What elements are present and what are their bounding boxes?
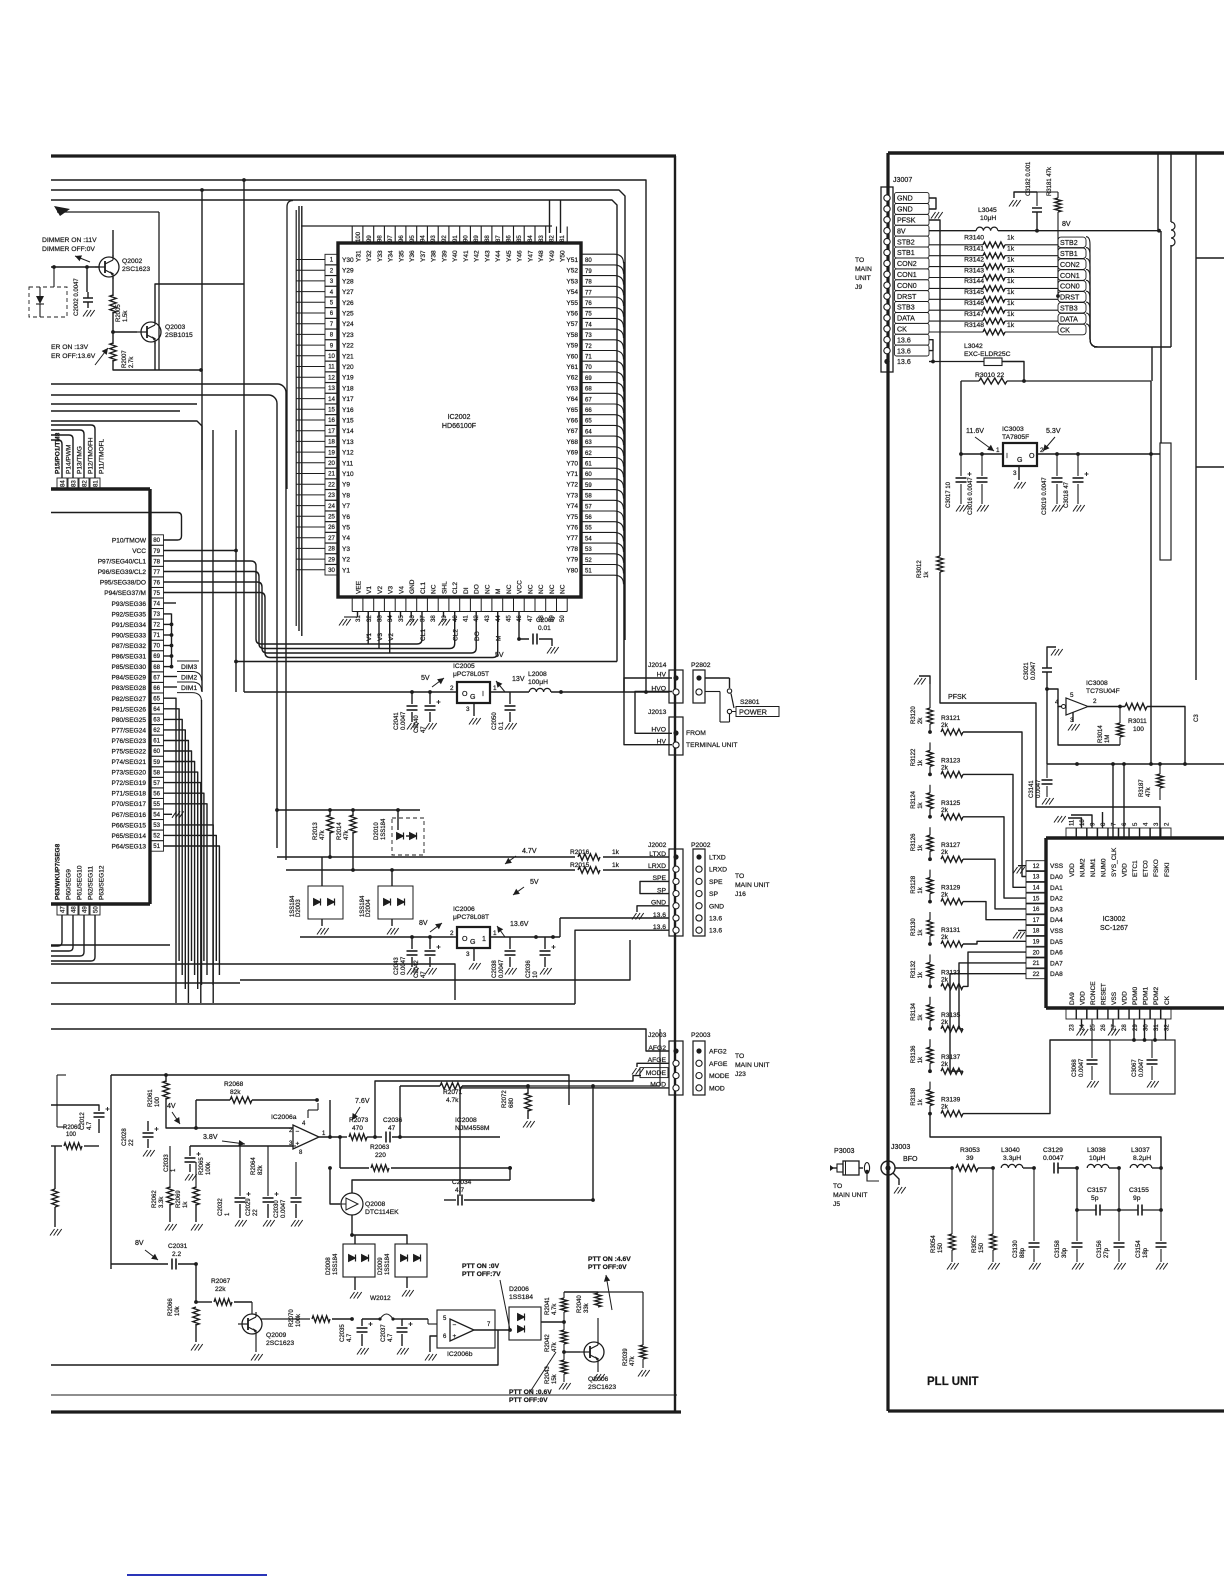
junction: [517, 637, 521, 641]
svg-text:1M: 1M: [1105, 735, 1111, 743]
junction: [398, 1135, 402, 1139]
svg-text:P73/SEG20: P73/SEG20: [112, 770, 147, 777]
wire: [960, 381, 962, 454]
svg-text:94: 94: [420, 235, 427, 242]
wire: [545, 227, 547, 244]
wire: [95, 348, 108, 365]
pin 5 IC2002: [325, 297, 338, 307]
pin 14 IC3002: [1026, 882, 1046, 892]
wire: [1086, 313, 1098, 347]
svg-text:1k: 1k: [1007, 235, 1015, 242]
svg-text:100μH: 100μH: [528, 679, 548, 686]
wire: [564, 1351, 580, 1353]
svg-text:Y34: Y34: [388, 250, 395, 262]
svg-text:13: 13: [1033, 874, 1040, 881]
svg-text:220: 220: [375, 1152, 386, 1159]
wire: [378, 612, 380, 618]
wire: [401, 1334, 403, 1346]
svg-text:74: 74: [153, 601, 160, 608]
wire: [1157, 153, 1159, 231]
svg-text:Y28: Y28: [342, 278, 354, 285]
junction: [1076, 452, 1080, 456]
svg-text:29: 29: [328, 556, 335, 563]
svg-text:Y55: Y55: [566, 300, 578, 307]
wire: [51, 513, 182, 541]
svg-text:CON0: CON0: [1060, 283, 1080, 291]
pin 25 IC3002: [1087, 1008, 1097, 1019]
svg-text:Y73: Y73: [566, 492, 578, 499]
svg-text:99: 99: [366, 235, 373, 242]
svg-text:Q2006: Q2006: [588, 1376, 609, 1383]
wire: [51, 190, 625, 640]
junction: [328, 1166, 332, 1170]
resistor R2073 470: [349, 1134, 367, 1140]
svg-text:30: 30: [328, 567, 335, 574]
svg-text:Y6: Y6: [342, 514, 350, 521]
ground: [1054, 816, 1066, 823]
resistor R2072 680: [525, 1093, 531, 1111]
pin AFGE J2003: [673, 1060, 679, 1066]
pin 22 IC2002: [325, 479, 338, 489]
svg-text:21: 21: [1033, 960, 1040, 967]
svg-text:IC3002: IC3002: [1103, 915, 1126, 923]
pin 13 IC3002: [1026, 872, 1046, 882]
svg-text:54: 54: [585, 535, 592, 542]
wire: [1081, 1019, 1083, 1028]
junction: [562, 1350, 566, 1354]
svg-text:C3157: C3157: [1087, 1187, 1107, 1194]
wire: [513, 597, 515, 612]
pin MOD P2003: [696, 1085, 702, 1091]
svg-text:23: 23: [328, 492, 335, 499]
junction: [1149, 452, 1153, 456]
svg-text:100: 100: [155, 1096, 161, 1107]
svg-text:Y37: Y37: [420, 250, 427, 262]
pin 11 IC2002: [325, 361, 338, 371]
svg-text:R2005: R2005: [116, 304, 122, 322]
wire: [111, 1263, 168, 1265]
junction: [1159, 1166, 1163, 1170]
svg-text:PLL UNIT: PLL UNIT: [927, 1376, 979, 1388]
junction: [591, 1084, 595, 1088]
wire: [448, 597, 450, 612]
svg-text:μPC78L08T: μPC78L08T: [453, 914, 489, 921]
svg-text:MODE: MODE: [646, 1070, 667, 1077]
svg-text:R3120: R3120: [911, 706, 917, 724]
pin 26 IC3002: [1098, 1008, 1108, 1019]
wire: [177, 682, 202, 691]
svg-text:13.6: 13.6: [709, 928, 722, 935]
wire: [444, 1199, 456, 1201]
svg-text:C3154: C3154: [1136, 1240, 1142, 1258]
wire: [1094, 346, 1171, 348]
junction: [551, 935, 555, 939]
ground: [1014, 482, 1026, 489]
resistor R3052 150: [990, 1234, 996, 1250]
wire: [963, 941, 1026, 944]
svg-text:84: 84: [527, 235, 534, 242]
wire: [400, 612, 402, 618]
wire: [296, 408, 325, 410]
wire: [1071, 815, 1092, 828]
svg-text:TA7805F: TA7805F: [1002, 434, 1029, 441]
svg-text:22: 22: [129, 1139, 135, 1146]
wire: [1037, 453, 1160, 455]
svg-text:13: 13: [328, 385, 335, 392]
wire: [351, 227, 353, 244]
pin 55 MCU: [150, 799, 164, 809]
svg-text:C2028: C2028: [122, 1128, 128, 1146]
wire: [190, 1145, 255, 1147]
svg-text:R3053: R3053: [960, 1147, 980, 1154]
pin 63 MCU: [150, 714, 164, 724]
junction: [234, 660, 238, 664]
wire: [527, 1110, 529, 1119]
ground: [425, 723, 437, 730]
junction: [200, 188, 204, 192]
wire: [1123, 764, 1125, 838]
wire: [410, 612, 412, 618]
wire: [975, 437, 994, 451]
svg-text:C3155: C3155: [1129, 1187, 1149, 1194]
resistor R2063 220: [371, 1165, 389, 1171]
pin 18 IC2002: [325, 436, 338, 446]
svg-text:R3134: R3134: [911, 1002, 917, 1020]
junction: [928, 1069, 932, 1073]
svg-text:87: 87: [495, 235, 502, 242]
wire: [859, 1167, 863, 1169]
svg-text:C3068: C3068: [1072, 1059, 1078, 1077]
wire: [164, 804, 208, 975]
svg-text:Y38: Y38: [431, 250, 438, 262]
pin 8 IC2002: [325, 329, 338, 339]
pin AFGE P2003: [696, 1060, 702, 1066]
pin 19 IC3002: [1026, 936, 1046, 946]
wire: [581, 361, 624, 370]
pin 70 MCU: [150, 640, 164, 650]
svg-text:Y8: Y8: [342, 492, 350, 499]
svg-text:8V: 8V: [135, 1239, 144, 1247]
svg-text:Y25: Y25: [342, 311, 354, 318]
svg-text:1k: 1k: [918, 844, 924, 851]
wire: [437, 597, 439, 612]
pin STB2 J3007: [884, 238, 890, 244]
svg-text:Y72: Y72: [566, 482, 578, 489]
wire: [416, 227, 418, 244]
switch S2801: [705, 677, 730, 679]
svg-text:82k: 82k: [258, 1164, 264, 1175]
wire: [164, 698, 177, 1003]
resistor R3136 1k: [927, 1047, 933, 1063]
IC microcontroller body: [148, 489, 151, 904]
wire: [1036, 212, 1038, 231]
ground: [1013, 932, 1025, 939]
svg-text:2.2: 2.2: [172, 1251, 181, 1258]
wire: [296, 344, 325, 346]
svg-text:C2043: C2043: [394, 957, 400, 975]
svg-text:CON0: CON0: [897, 282, 917, 290]
ground: [439, 619, 451, 626]
svg-text:R2066: R2066: [168, 1298, 174, 1316]
svg-text:18: 18: [328, 439, 335, 446]
wire: [164, 730, 186, 989]
svg-text:P3003: P3003: [834, 1147, 855, 1155]
svg-text:0.0047: 0.0047: [401, 711, 407, 730]
svg-text:C3016 0.0047: C3016 0.0047: [968, 477, 974, 515]
svg-text:R3052: R3052: [972, 1235, 978, 1253]
ground: [1013, 867, 1025, 874]
svg-text:DRST: DRST: [897, 293, 917, 301]
svg-text:1k: 1k: [1007, 278, 1015, 285]
pin 3 IC3002: [1150, 828, 1160, 838]
svg-text:NUM2: NUM2: [1079, 858, 1086, 877]
svg-text:P15/PO1/TM8: P15/PO1/TM8: [55, 432, 62, 474]
svg-text:30p: 30p: [1062, 1247, 1068, 1258]
wire: [51, 440, 62, 478]
svg-text:SC-1267: SC-1267: [1100, 924, 1128, 932]
wire: [623, 262, 625, 692]
svg-text:100k: 100k: [206, 1161, 212, 1175]
svg-text:76: 76: [153, 579, 160, 586]
svg-text:C3130: C3130: [1013, 1240, 1019, 1258]
svg-text:P2002: P2002: [691, 842, 711, 849]
wire: [296, 291, 325, 293]
pin 67 MCU: [150, 672, 164, 682]
wire: [1102, 812, 1104, 828]
ground: [988, 1263, 1000, 1270]
svg-text:51: 51: [153, 843, 160, 850]
wire: [178, 1263, 196, 1265]
wire: [429, 692, 431, 704]
wire: [296, 355, 325, 357]
wire: [674, 156, 676, 1412]
diode D2004 1SS184 box: [378, 886, 413, 919]
wire: [296, 440, 325, 442]
svg-text:77: 77: [585, 289, 592, 296]
svg-text:C2029: C2029: [246, 1198, 252, 1216]
svg-text:48: 48: [71, 906, 78, 913]
svg-text:TO: TO: [735, 1053, 744, 1060]
wire: [367, 1136, 382, 1138]
wire: [212, 430, 214, 985]
svg-text:NC: NC: [484, 584, 491, 594]
svg-text:68: 68: [153, 664, 160, 671]
pin 69 MCU: [150, 651, 164, 661]
wire: [340, 1167, 369, 1169]
wire: [606, 1275, 612, 1310]
svg-text:Y62: Y62: [566, 375, 578, 382]
svg-text:65: 65: [153, 696, 160, 703]
wire: [448, 227, 450, 244]
ground: [1108, 1029, 1120, 1036]
wire: [581, 468, 624, 477]
wire: [196, 1301, 212, 1303]
pin STB3 J3007: [884, 304, 890, 310]
wire: [51, 1330, 498, 1365]
svg-text:FSKO: FSKO: [1153, 859, 1160, 877]
svg-text:C3156: C3156: [1097, 1240, 1103, 1258]
wire: [963, 902, 1026, 920]
svg-text:78: 78: [585, 279, 592, 286]
svg-text:G: G: [470, 938, 476, 946]
wire: [1110, 1040, 1175, 1094]
svg-text:1k: 1k: [1007, 267, 1015, 274]
svg-text:P92/SEG35: P92/SEG35: [112, 611, 147, 618]
wire: [1086, 291, 1098, 347]
svg-text:Y74: Y74: [566, 503, 578, 510]
pin 21 IC3002: [1026, 958, 1046, 968]
wire: [330, 1168, 340, 1204]
junction: [338, 1135, 342, 1139]
wire: [497, 926, 505, 937]
wire: [581, 532, 624, 541]
wire: [296, 312, 325, 314]
svg-text:Y4: Y4: [342, 535, 350, 542]
wire: [1058, 1167, 1077, 1169]
wire: [490, 691, 529, 693]
wire: [460, 1088, 669, 1196]
svg-text:UNIT: UNIT: [855, 275, 871, 282]
svg-text:P77/SEG24: P77/SEG24: [112, 727, 147, 734]
svg-text:R2069: R2069: [176, 1190, 182, 1208]
wire: [296, 451, 325, 453]
pin 60 MCU: [150, 746, 164, 756]
wire: [411, 937, 413, 949]
pin 32 IC3002: [1161, 1008, 1171, 1019]
svg-text:LTXD: LTXD: [649, 851, 666, 858]
resistor R3129 2k: [941, 899, 963, 905]
pin 54 MCU: [150, 809, 164, 819]
svg-text:DA1: DA1: [1050, 885, 1063, 892]
wire: [581, 425, 624, 434]
pin 17 IC2002: [325, 426, 338, 436]
wire: [1170, 153, 1172, 222]
wire: [195, 1100, 197, 1128]
wire: [296, 387, 325, 389]
pin 57 MCU: [150, 777, 164, 787]
pin 56 MCU: [150, 788, 164, 798]
wire: [1014, 192, 1037, 198]
wire: [1152, 1167, 1161, 1169]
svg-text:51: 51: [585, 568, 592, 575]
wire: [509, 692, 511, 704]
ground: [947, 1263, 959, 1270]
svg-text:P60/SEG9: P60/SEG9: [66, 869, 73, 900]
svg-text:P91/SEG34: P91/SEG34: [112, 622, 147, 629]
wire: [545, 597, 547, 612]
svg-text:TERMINAL UNIT: TERMINAL UNIT: [686, 742, 738, 749]
svg-text:VSS: VSS: [1050, 928, 1064, 935]
svg-text:P70/SEG17: P70/SEG17: [112, 801, 147, 808]
svg-text:4.7: 4.7: [87, 1121, 93, 1130]
svg-text:19: 19: [328, 449, 335, 456]
svg-text:41: 41: [463, 615, 470, 622]
svg-text:P2003: P2003: [691, 1032, 711, 1039]
svg-text:10: 10: [533, 971, 539, 978]
wire: [235, 430, 237, 692]
wire: [394, 227, 396, 244]
ground: [406, 619, 418, 626]
wire: [51, 266, 99, 268]
svg-text:3.8V: 3.8V: [203, 1133, 218, 1141]
pin 2 IC2002: [325, 265, 338, 275]
wire: [164, 772, 198, 989]
junction: [559, 690, 563, 694]
svg-text:P62/SEG11: P62/SEG11: [88, 866, 95, 900]
svg-text:CK: CK: [1060, 326, 1070, 334]
wire: [389, 612, 391, 654]
junction: [164, 1073, 168, 1077]
svg-text:G: G: [470, 693, 476, 701]
svg-text:Y68: Y68: [566, 439, 578, 446]
wire: [491, 227, 493, 244]
svg-text:+: +: [453, 1333, 457, 1340]
wire: [546, 200, 617, 662]
junction: [170, 644, 174, 648]
wire: [443, 612, 445, 618]
pin 16 IC2002: [325, 415, 338, 425]
svg-text:82: 82: [549, 235, 556, 242]
junction: [1159, 1208, 1163, 1212]
wire: [164, 709, 180, 961]
wire: [56, 1075, 58, 1127]
wire: [640, 881, 669, 893]
svg-text:0.0047: 0.0047: [401, 956, 407, 975]
svg-text:9p: 9p: [1133, 1195, 1141, 1202]
capacitor C2007: [533, 634, 537, 645]
transistor Q2003 2SB1015: [137, 320, 161, 344]
svg-text:79: 79: [153, 548, 160, 555]
svg-text:22: 22: [253, 1209, 259, 1216]
wire: [581, 511, 624, 520]
svg-text:STB2: STB2: [1060, 239, 1078, 247]
wire: [51, 435, 73, 478]
svg-text:20: 20: [1033, 949, 1040, 956]
wire: [51, 964, 455, 1000]
svg-text:C3067: C3067: [1132, 1059, 1138, 1077]
pin 51 MCU: [150, 841, 164, 851]
svg-text:R3147: R3147: [964, 311, 984, 318]
wire: [154, 342, 156, 370]
ground: [632, 913, 644, 920]
ground: [387, 928, 399, 935]
svg-text:71: 71: [585, 354, 592, 361]
ground: [185, 1174, 197, 1181]
svg-text:8.2μH: 8.2μH: [1133, 1155, 1151, 1162]
resistor R3012 1k: [937, 556, 943, 572]
pin 78 MCU: [150, 556, 164, 566]
diode D2009 1SS184: [395, 1244, 427, 1277]
resistor R3011 100: [1125, 703, 1147, 709]
wire: [362, 227, 364, 244]
svg-text:53: 53: [153, 822, 160, 829]
svg-text:34: 34: [387, 615, 394, 622]
svg-text:10μH: 10μH: [1089, 1155, 1105, 1162]
svg-text:ETC1: ETC1: [1132, 860, 1139, 877]
svg-text:M: M: [496, 636, 503, 641]
wire: [513, 887, 524, 895]
wire: [919, 676, 930, 684]
wire: [998, 230, 1159, 232]
junction: [959, 452, 963, 456]
wire: [301, 225, 552, 227]
svg-text:58: 58: [585, 493, 592, 500]
svg-text:Y5: Y5: [342, 525, 350, 532]
svg-text:18: 18: [1033, 928, 1040, 935]
pin MOD J2003: [673, 1085, 679, 1091]
wire: [383, 227, 385, 244]
svg-text:C2012: C2012: [80, 1112, 86, 1130]
